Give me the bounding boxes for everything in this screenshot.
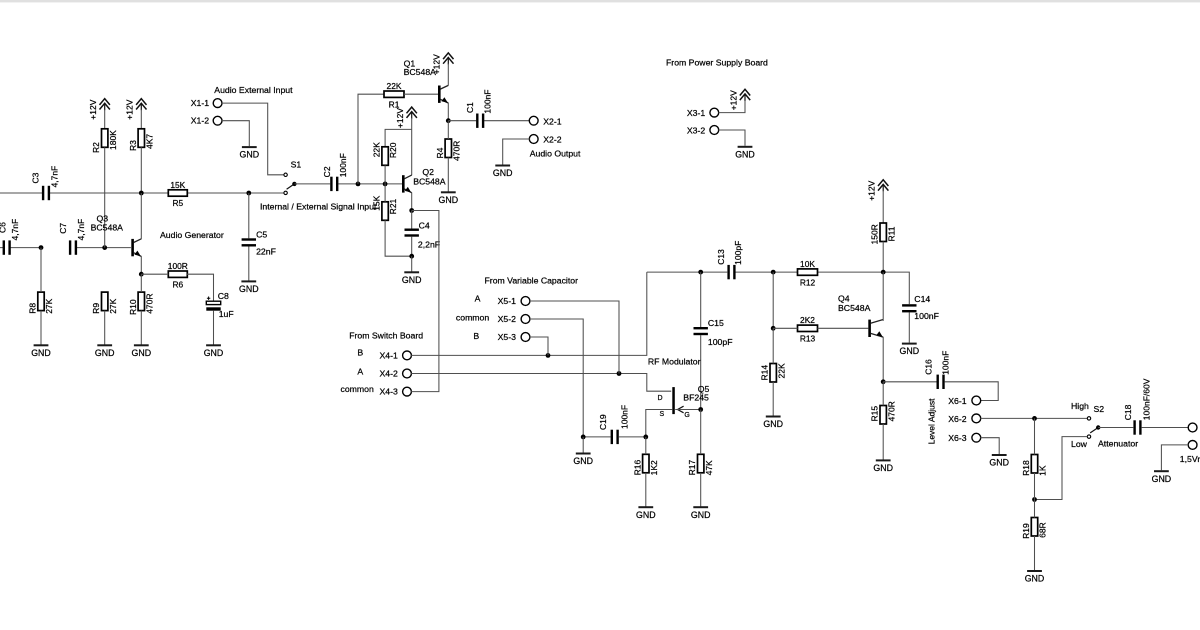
label A X4-2 [357,367,363,377]
connector X1-1 [213,99,222,108]
resistor R4 [435,139,462,161]
svg-text:2K2: 2K2 [800,315,815,325]
label Q1 [404,59,416,69]
svg-text:22K: 22K [776,363,786,378]
svg-text:10K: 10K [800,259,815,269]
label Q2 [422,167,434,177]
svg-text:D: D [658,395,663,402]
resistor R13 [798,315,818,343]
junction R18 R19 node [1032,497,1037,502]
label A X5-1 [475,293,481,303]
wire R14 top [772,328,774,363]
junction Q3 base bias node [102,245,107,250]
svg-text:B: B [357,348,363,358]
value C5 22nF [256,247,276,257]
wire X3-2 to gnd [719,130,746,146]
connector X4-1 [403,351,412,360]
resistor R1 [384,81,404,109]
wire S1 to Q2 base y183.9 [294,183,402,185]
value Q1 BC548A [404,67,437,77]
label Low [1071,439,1088,449]
svg-text:From Power Supply Board: From Power Supply Board [666,57,768,67]
svg-text:47K: 47K [704,460,714,475]
svg-text:X5-3: X5-3 [498,332,517,342]
ground X6-3 [989,455,1009,468]
svg-text:C16: C16 [924,359,934,375]
wire R21 top [384,184,386,202]
svg-text:22K: 22K [372,142,382,157]
svg-text:C5: C5 [256,229,267,239]
connector X5-2 [521,315,530,324]
svg-text:Audio Generator: Audio Generator [160,230,224,240]
connector X6-2 [972,414,981,423]
svg-text:X6-1: X6-1 [948,396,967,406]
label X5-1 [498,296,517,306]
svg-text:100pF: 100pF [733,241,743,265]
svg-text:R16: R16 [632,460,642,476]
svg-text:X4-1: X4-1 [380,350,399,360]
svg-text:GND: GND [132,348,152,358]
label From Power Supply Board [666,57,768,67]
svg-text:BC548A: BC548A [413,176,446,186]
junction Q3 emitter node [139,272,144,277]
resistor R6 [168,261,188,289]
resistor R15 [870,401,897,424]
wire R3 top [140,110,142,129]
wire R8 top [40,248,42,293]
junction C13 right node [771,270,776,275]
wire Q5 source [646,410,673,437]
+12V supply Q1 [432,53,454,74]
junction C5 node [246,191,251,196]
svg-text:G: G [684,412,689,419]
svg-text:B: B [473,331,479,341]
label C14 [914,294,930,304]
connector output low [1188,441,1197,450]
wire X5-2 branch [530,319,584,437]
junction Q5 gate node [698,407,703,412]
wire X6-2 row [980,417,1087,419]
svg-text:From Variable Capacitor: From Variable Capacitor [485,275,579,285]
wire net B X4-1 [411,272,647,355]
junction Q2 emitter node [409,208,414,213]
wire C1 row [448,120,529,122]
wire C16 row [883,382,998,401]
wire R15 top [882,382,884,406]
junction C19 left node [581,435,586,440]
+12V supply X3 [728,89,750,110]
svg-text:GND: GND [763,419,783,429]
svg-text:C6: C6 [0,222,7,233]
wire R2 top [104,110,106,129]
svg-text:1K2: 1K2 [649,460,659,475]
wire output low to gnd [1161,445,1188,470]
svg-text:4,7nF: 4,7nF [10,219,20,241]
svg-text:R12: R12 [800,277,816,287]
ground X3-2 [735,147,755,160]
connector X2-1 [529,116,538,125]
svg-text:Level Adjust: Level Adjust [927,398,937,444]
pin label D [658,395,663,402]
label Internal / External Signal Input [260,202,377,212]
wire C14 branch [908,312,910,342]
wire X2-2 to gnd [503,139,530,165]
svg-text:BC548A: BC548A [838,303,871,313]
svg-text:A: A [357,367,363,377]
wire rf top y272.1 [647,272,910,304]
junction C19 right node [643,435,648,440]
label RF Modulator [648,357,701,367]
wire R10 top [140,274,142,292]
svg-text:Internal / External Signal Inp: Internal / External Signal Input [260,202,377,212]
svg-text:180K: 180K [108,130,118,150]
wire R6 left [141,273,168,275]
svg-text:common: common [341,384,374,394]
svg-text:GND: GND [204,348,224,358]
svg-text:R14: R14 [760,365,770,381]
svg-text:C18: C18 [1123,404,1133,420]
svg-text:+12V: +12V [728,90,738,110]
svg-text:100nF/60V: 100nF/60V [1142,378,1152,420]
label X6-3 [948,433,967,443]
resistor R21 [372,195,399,220]
capacitor C18 [1133,420,1141,434]
junction R20 R21 node [383,182,388,187]
wire C5 branch [248,193,250,238]
svg-text:4,7nF: 4,7nF [49,166,59,188]
svg-text:R6: R6 [172,279,183,289]
label S1 [291,159,302,169]
capacitor C14 [902,304,916,312]
svg-text:X6-2: X6-2 [948,414,967,424]
svg-text:GND: GND [1025,574,1045,584]
wire X1-2 to gnd [222,121,250,146]
wire R20 bottom [384,165,386,184]
ground R9 [95,311,115,358]
svg-text:X1-2: X1-2 [191,116,210,126]
svg-text:R8: R8 [28,303,38,314]
capacitor C19 [611,430,619,444]
resistor R8 [28,292,55,314]
wire Q1 emitter [447,103,449,121]
label X6-2 [948,414,967,424]
svg-text:R13: R13 [800,334,816,344]
svg-text:C19: C19 [598,414,608,430]
svg-text:C3: C3 [30,172,40,183]
svg-text:1K: 1K [1038,465,1048,476]
label B X4-1 [357,348,363,358]
svg-text:GND: GND [573,456,593,466]
+12V supply R3 [125,99,147,120]
svg-text:R5: R5 [172,198,183,208]
ground R8 [31,311,51,358]
svg-text:27K: 27K [44,298,54,313]
svg-text:BC548A: BC548A [91,223,124,233]
svg-text:X5-1: X5-1 [498,296,517,306]
svg-text:X1-1: X1-1 [191,98,210,108]
connector X6-3 [972,433,981,442]
wire osc base y247.6 [0,247,131,249]
svg-text:R3: R3 [128,140,138,151]
svg-text:R18: R18 [1021,460,1031,476]
label Q3 [97,213,109,223]
wire R13 right to Q4 base [818,327,869,329]
value Q2 BC548A [413,176,446,186]
svg-text:GND: GND [900,346,920,356]
resistor R12 [798,259,818,287]
junction R18 top node [1032,416,1037,421]
ground X1-2 [240,147,260,160]
svg-text:GND: GND [735,149,755,159]
label High [1071,401,1089,411]
svg-text:X2-1: X2-1 [543,116,562,126]
svg-text:C2: C2 [322,166,332,177]
junction R1 branch [356,182,361,187]
svg-text:Audio External Input: Audio External Input [214,85,293,95]
capacitor C3 [42,186,50,200]
svg-text:Low: Low [1071,439,1088,449]
label B X5-3 [473,331,479,341]
svg-text:2,2nF: 2,2nF [418,239,440,249]
svg-text:X6-3: X6-3 [948,433,967,443]
svg-text:4K7: 4K7 [144,134,154,149]
capacitor C13 [727,265,735,279]
label Audio Output [530,148,581,158]
svg-text:C8: C8 [218,291,229,301]
svg-text:Audio Output: Audio Output [530,148,581,158]
svg-text:22K: 22K [387,81,402,91]
wire X1-1 to S1 [222,103,284,175]
svg-text:1,5Vrms: 1,5Vrms [1180,454,1200,464]
junction R11 node [881,270,886,275]
wire net A X4-2 [411,374,671,392]
label C15 [708,318,724,328]
wire R1 to Q1 base [404,93,438,95]
wire R1 branch [358,94,384,184]
svg-text:R17: R17 [687,460,697,476]
ground R4 [439,158,459,205]
wire net common X4-3 to Q2 emitter [411,211,439,392]
ground R16 [636,473,656,520]
resistor R17 [687,454,714,475]
wire R3 bottom [140,147,142,193]
svg-text:15K: 15K [170,180,185,190]
electrolytic capacitor C8 [206,297,220,311]
svg-text:Q2: Q2 [422,167,434,177]
capacitor C6 [3,240,11,254]
wire R2 bottom to base [104,147,106,247]
label X2-1 [543,116,562,126]
ground C19 [573,437,593,466]
svg-text:150R: 150R [870,224,880,244]
transistor Q2 [402,175,412,193]
wire R21 bottom [385,220,412,256]
wire R18 bottom [1034,473,1036,500]
connector X4-3 [403,387,412,396]
svg-text:100pF: 100pF [708,337,733,347]
svg-text:GND: GND [636,510,656,520]
label X6-1 [948,396,967,406]
label common X5-2 [456,312,489,322]
svg-text:High: High [1071,401,1089,411]
pin label G [684,412,689,419]
junction R8 node [39,245,44,250]
wire osc main y193 [0,192,284,194]
svg-text:GND: GND [239,284,259,294]
wire C19 row [583,436,646,438]
resistor R11 [870,223,897,245]
svg-text:22nF: 22nF [256,247,276,257]
svg-text:15K: 15K [372,195,382,210]
svg-text:4,7nF: 4,7nF [76,219,86,241]
ground C5 [239,247,259,295]
connector X3-1 [710,108,719,117]
wire R11 top [882,191,884,224]
connector X5-3 [521,333,530,342]
capacitor C15 [694,327,708,335]
transistor Q1 [438,85,448,103]
svg-text:1uF: 1uF [219,309,234,319]
wire R14 branch [772,272,774,328]
label X2-2 [543,135,562,145]
resistor R18 [1021,455,1048,476]
svg-text:S1: S1 [291,159,302,169]
ground C8 [204,311,224,358]
label X5-3 [498,332,517,342]
pin label S [660,411,665,418]
label X4-1 [380,350,399,360]
ground R10 [132,311,152,358]
capacitor C4 [405,229,419,237]
resistor R3 [128,129,155,151]
svg-text:S2: S2 [1094,404,1105,414]
wire C15 branch [700,272,702,409]
junction net A X5-1 [617,371,622,376]
wire Q3 collector [140,193,142,239]
svg-text:RF Modulator: RF Modulator [648,357,701,367]
connector X6-1 [972,396,981,405]
wire R16 top [645,437,647,454]
svg-text:GND: GND [240,150,260,160]
connector X1-2 [213,116,222,125]
svg-text:X3-1: X3-1 [687,108,706,118]
ground X2-2 [493,166,513,179]
wire X3-1 to +12V [719,100,746,113]
svg-text:X4-2: X4-2 [380,368,399,378]
resistor R9 [91,292,118,314]
svg-text:R10: R10 [128,299,138,315]
svg-text:GND: GND [493,168,513,178]
label Q4 [838,293,850,303]
capacitor C5 [242,238,256,246]
connector X2-2 [529,135,538,144]
junction Q4 emitter node [881,379,886,384]
svg-text:X4-3: X4-3 [380,387,399,397]
svg-text:68R: 68R [1038,522,1048,538]
svg-text:GND: GND [1152,474,1172,484]
wire Low contact [1035,437,1088,500]
wire Q2 emitter [411,193,413,211]
junction Q1 emitter node [446,118,451,123]
svg-text:BF245: BF245 [683,393,709,403]
svg-text:C4: C4 [419,221,430,231]
connector X5-1 [521,297,530,306]
junction C4 bottom node [409,254,414,259]
svg-text:100nF: 100nF [619,405,629,429]
ground output [1152,471,1172,484]
wire Q3 emitter [140,256,142,274]
transistor Q4 [868,320,883,338]
svg-text:C15: C15 [708,318,724,328]
svg-text:100nF: 100nF [338,153,348,177]
svg-text:+12V: +12V [125,99,135,119]
resistor R19 [1021,518,1048,539]
label X5-2 [498,314,517,324]
svg-text:R11: R11 [886,226,896,241]
switch S2 [1087,417,1100,439]
label Q5 [698,384,710,394]
label X1-1 [191,98,210,108]
value Q5 BF245 [683,393,709,403]
svg-text:C13: C13 [716,249,726,265]
svg-text:GND: GND [989,458,1009,468]
capacitor C1 [476,114,484,128]
+12V supply Q2 [395,107,417,128]
svg-text:C1: C1 [465,102,475,113]
svg-text:R4: R4 [435,147,445,158]
capacitor C16 [937,375,945,389]
junction R13 node [771,326,776,331]
resistor R2 [91,129,118,153]
svg-text:GND: GND [439,195,459,205]
wire R17 top [700,410,702,455]
label From Switch Board [349,330,423,340]
svg-text:GND: GND [691,510,711,520]
svg-text:R19: R19 [1021,523,1031,539]
wire +12V to R20/Q2 [385,118,412,176]
svg-text:GND: GND [31,348,51,358]
svg-text:R2: R2 [91,142,101,153]
label X4-2 [380,368,399,378]
value Q3 BC548A [91,223,124,233]
svg-text:A: A [475,293,481,303]
value C15 100pF [708,337,733,347]
svg-text:Attenuator: Attenuator [1098,438,1138,448]
connector X4-2 [403,369,412,378]
wire X5-1 branch [530,301,619,374]
+12V supply R11 [867,180,889,201]
svg-text:X3-2: X3-2 [687,125,706,135]
svg-text:470R: 470R [144,293,154,313]
svg-text:R15: R15 [870,406,880,422]
svg-text:From Switch Board: From Switch Board [349,330,423,340]
wire R13 left [773,327,797,329]
resistor R16 [632,454,659,475]
switch S1 [284,173,297,194]
svg-text:C7: C7 [58,223,68,234]
resistor R14 [760,363,787,382]
label 1,5Vrms [1180,454,1200,464]
wire X6-3 to gnd [980,438,999,454]
value C14 100nF [914,311,939,321]
label From Variable Capacitor [485,275,579,285]
junction C13 left node [698,270,703,275]
svg-text:100R: 100R [168,261,188,271]
svg-text:R1: R1 [389,99,400,109]
junction net B X5-3 [546,353,551,358]
svg-text:GND: GND [873,463,893,473]
label X4-3 [380,387,399,397]
